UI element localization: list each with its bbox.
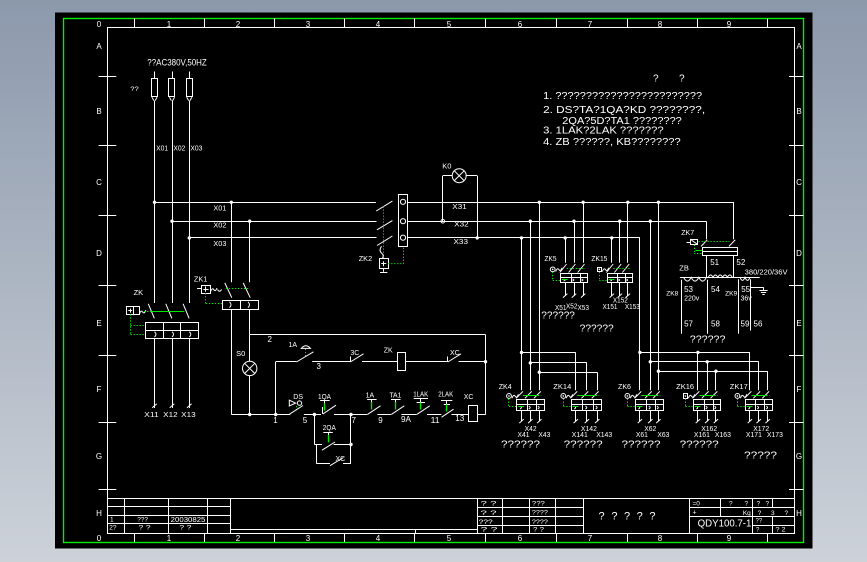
breaker ZK blade link dashed	[144, 311, 186, 313]
node bus taps at phases	[153, 201, 156, 204]
transformer ZB secondary winding 220V	[684, 277, 707, 281]
switch ZK2 link dashed	[383, 207, 385, 259]
breaker ZK15 output wires	[611, 282, 613, 296]
svg-text:X161: X161	[694, 432, 710, 439]
switch ZK2 body	[399, 195, 408, 247]
svg-text:D: D	[96, 249, 102, 258]
breaker ZK6 output wires	[639, 410, 641, 421]
svg-text:C: C	[796, 178, 802, 187]
breaker ZK17 blades	[745, 391, 752, 398]
svg-text:S0: S0	[236, 349, 245, 358]
wire rail 1 segments	[232, 414, 290, 416]
revision table grid	[108, 506, 231, 508]
wire ZK1 pole2 down to rail 2	[249, 309, 251, 334]
svg-text:?: ?	[599, 510, 605, 522]
svg-text:0: 0	[97, 534, 102, 543]
svg-text:X03: X03	[190, 144, 202, 153]
svg-text:?: ?	[611, 510, 617, 522]
svg-text:ZK1: ZK1	[194, 274, 208, 283]
breaker ZK1 thermal box	[223, 301, 259, 310]
wire lamp right leg	[466, 175, 477, 177]
breaker ZK4 output wires	[521, 410, 523, 421]
svg-text:9: 9	[727, 20, 732, 29]
svg-text:52: 52	[736, 258, 745, 267]
switch ZK2 operator	[380, 259, 389, 269]
svg-text:6: 6	[518, 534, 523, 543]
svg-text:2: 2	[236, 20, 241, 29]
svg-text:?: ?	[637, 510, 643, 522]
green sheet trim border	[64, 19, 804, 543]
svg-text:ZK9: ZK9	[725, 290, 737, 297]
breaker ZK1 operator	[197, 288, 201, 290]
wire ZK4 feeds from buses	[521, 238, 523, 390]
svg-text:????: ????	[532, 510, 548, 517]
transformer ZB primary winding	[708, 275, 732, 277]
svg-text:7: 7	[588, 534, 593, 543]
svg-text:X173: X173	[767, 432, 783, 439]
breaker ZK7 blade link dashed	[699, 241, 730, 243]
pushbutton 2QA branch	[314, 444, 322, 446]
svg-text:C: C	[96, 178, 102, 187]
svg-text:????: ????	[532, 519, 548, 526]
svg-text:? ?: ? ?	[481, 510, 498, 517]
wire secondary terminal 53-57	[681, 280, 683, 334]
svg-text:56: 56	[754, 320, 763, 329]
svg-text:X02: X02	[213, 221, 226, 230]
white drawing frame	[108, 28, 795, 534]
svg-text:11: 11	[431, 416, 441, 425]
wire ZK7 feed from X32	[706, 221, 708, 239]
svg-text:ZK16: ZK16	[676, 382, 694, 391]
svg-text:3C: 3C	[350, 350, 359, 357]
fuse RD2	[172, 72, 174, 80]
switch ZK2 blades	[376, 201, 392, 211]
svg-text:7: 7	[352, 416, 357, 425]
breaker ZK16 operator link dashed	[685, 399, 687, 407]
svg-text:?: ?	[679, 74, 685, 85]
svg-text:ZK17: ZK17	[730, 382, 748, 391]
svg-text:380/220/36V: 380/220/36V	[745, 267, 788, 276]
svg-text:QDY100.7-1: QDY100.7-1	[698, 519, 752, 530]
svg-text:3: 3	[306, 534, 311, 543]
svg-text:G: G	[96, 452, 102, 461]
breaker ZK15 blades	[606, 264, 613, 273]
svg-text:E: E	[796, 319, 801, 328]
svg-text:X153: X153	[625, 304, 640, 311]
svg-text:???: ???	[479, 519, 493, 526]
breaker ZK4 operator	[507, 394, 512, 399]
svg-text:7: 7	[588, 20, 593, 29]
svg-text:ZK5: ZK5	[545, 254, 557, 263]
svg-text:X53: X53	[578, 305, 590, 312]
svg-text:2?: 2?	[109, 525, 117, 532]
svg-text:X141: X141	[572, 432, 588, 439]
svg-text:??????: ??????	[541, 311, 575, 322]
svg-text:X02: X02	[173, 144, 185, 153]
svg-text:??????: ??????	[501, 439, 541, 450]
breaker ZK6 operator link dashed	[627, 399, 629, 407]
breaker ZK17 operator	[735, 394, 740, 399]
svg-text:X13: X13	[181, 410, 196, 419]
wire ZK1 pole1 down to rail 1	[231, 309, 233, 414]
breaker ZK5 blades	[560, 264, 567, 273]
wire phase L2	[172, 101, 174, 303]
breaker ZK14 blades	[570, 391, 577, 398]
wire secondary terminal 54-58	[707, 280, 709, 334]
breaker ZK thermal box	[146, 323, 199, 339]
breaker ZK6 thermal box	[636, 400, 664, 411]
svg-text:H: H	[796, 509, 802, 518]
breaker ZK17 output wires	[749, 410, 751, 421]
svg-text:F: F	[97, 385, 102, 394]
wire phase L3	[189, 101, 191, 303]
breaker ZK7 body	[703, 248, 738, 256]
svg-text:??????: ??????	[622, 439, 662, 450]
wire parallel branch right	[350, 415, 352, 464]
svg-text:ZK15: ZK15	[591, 254, 607, 263]
fuse RD1	[154, 72, 156, 80]
svg-text:X31: X31	[452, 202, 467, 211]
svg-text:X03: X03	[213, 239, 226, 248]
svg-text:B: B	[796, 107, 801, 116]
breaker ZK5 output wires	[565, 282, 567, 296]
svg-text:X163: X163	[715, 432, 731, 439]
svg-text:20030825: 20030825	[171, 517, 206, 524]
wire ZK5 feeds	[565, 238, 567, 263]
svg-text:220v: 220v	[684, 296, 700, 303]
svg-text:? 2: ? 2	[776, 528, 787, 534]
wire motor feed X13	[189, 339, 191, 408]
svg-text:X63: X63	[657, 432, 669, 439]
svg-text:?????: ?????	[744, 451, 778, 462]
svg-text:4: 4	[376, 534, 381, 543]
svg-text:X43: X43	[538, 432, 550, 439]
wire bus X03 left	[189, 237, 376, 239]
bottom ruler zone ticks	[134, 534, 136, 542]
svg-text:X12: X12	[163, 410, 178, 419]
svg-text:X61: X61	[636, 432, 648, 439]
svg-text:? ?: ? ?	[139, 524, 151, 531]
wire ZK15 feeds	[611, 238, 613, 263]
svg-text:8: 8	[658, 20, 663, 29]
svg-text:G: G	[796, 452, 802, 461]
svg-text:??: ??	[756, 519, 763, 525]
breaker ZK operator link dashed	[130, 314, 132, 335]
wire ZK7 to transformer	[706, 256, 708, 278]
svg-text:?: ?	[766, 501, 770, 508]
svg-text:K0: K0	[442, 162, 451, 171]
svg-text:X01: X01	[213, 204, 226, 213]
svg-text:X32: X32	[454, 220, 469, 229]
breaker ZK6 blade link dashed	[641, 395, 657, 397]
breaker ZK15 thermal box	[608, 274, 633, 283]
svg-text:2: 2	[236, 534, 241, 543]
wire bus X31	[408, 202, 734, 204]
fuse RD3	[189, 72, 191, 80]
svg-text:54: 54	[711, 285, 720, 294]
wire ZK1 feed from X02	[249, 221, 251, 282]
svg-text:1A: 1A	[366, 393, 375, 400]
wire secondary terminal 59	[738, 279, 740, 334]
wire ZK7 feed from X31	[733, 202, 735, 239]
breaker ZK4 blades	[516, 391, 523, 398]
breaker ZK14 operator	[561, 394, 566, 399]
svg-text:ZK: ZK	[384, 348, 393, 355]
switch ZK2 operator link dashed	[388, 248, 403, 264]
svg-text:3: 3	[306, 20, 311, 29]
svg-text:B: B	[96, 107, 101, 116]
wire bus X02 left	[172, 221, 377, 223]
breaker ZK16 operator	[684, 394, 688, 399]
breaker ZK16 blade link dashed	[699, 395, 714, 397]
wire branch to ZK14 pole3	[539, 372, 597, 374]
svg-text:X143: X143	[596, 432, 612, 439]
drawing title cell	[689, 499, 691, 534]
breaker ZK4 thermal box	[517, 400, 545, 411]
breaker ZK4 operator link dashed	[508, 399, 510, 407]
svg-text:13: 13	[455, 414, 465, 423]
svg-text:1: 1	[273, 416, 278, 425]
breaker ZK16 blades	[693, 391, 700, 398]
breaker ZK5 operator link dashed	[552, 272, 554, 280]
wire secondary terminal 56	[750, 279, 752, 330]
wire rail 3 segments	[276, 361, 297, 363]
svg-text:X171: X171	[746, 432, 762, 439]
wire ZK1 feed from X01	[231, 202, 233, 282]
svg-text:X41: X41	[518, 432, 530, 439]
svg-text:ZK2: ZK2	[359, 254, 373, 263]
svg-text:9: 9	[727, 534, 732, 543]
svg-text:1QA: 1QA	[318, 394, 331, 401]
svg-text:D: D	[796, 249, 802, 258]
svg-text:ZB: ZB	[679, 264, 689, 273]
transformer ZB secondary winding 36V	[740, 277, 750, 280]
svg-text:H: H	[96, 509, 102, 518]
svg-text:58: 58	[711, 320, 720, 329]
svg-text:??????: ??????	[690, 335, 726, 346]
svg-text:+: +	[693, 510, 697, 517]
wire motor feed X12	[172, 339, 174, 408]
breaker ZK5 thermal box	[561, 274, 588, 283]
svg-text:1: 1	[167, 20, 172, 29]
svg-text:55: 55	[741, 285, 750, 294]
wire branch to ZK14 pole1	[522, 352, 576, 354]
breaker ZK14 operator link dashed	[563, 399, 565, 407]
svg-text:1. ????????????????????????: 1. ????????????????????????	[543, 91, 702, 102]
svg-text:5: 5	[303, 416, 308, 425]
svg-text:0: 0	[97, 20, 102, 29]
svg-text:X11: X11	[144, 410, 159, 419]
svg-text:9: 9	[378, 416, 383, 425]
svg-text:A: A	[96, 42, 102, 51]
svg-text:2LAK: 2LAK	[438, 392, 453, 399]
svg-text:???: ???	[532, 500, 545, 507]
breaker ZK1 operator link dashed	[205, 293, 207, 304]
svg-text:4: 4	[376, 20, 381, 29]
svg-text:F: F	[797, 385, 802, 394]
svg-text:ZK4: ZK4	[499, 382, 512, 391]
breaker ZK15 operator	[598, 268, 602, 272]
breaker ZK1 blades	[225, 283, 232, 298]
wire branch to ZK16 ZK17 pole2	[650, 361, 758, 363]
title block top border	[108, 498, 796, 500]
wire motor feed X11	[154, 339, 156, 408]
breaker ZK15 blade link dashed	[613, 268, 630, 270]
right ruler row ticks	[789, 76, 803, 78]
breaker ZK5 operator	[550, 267, 555, 272]
svg-text:1: 1	[167, 534, 172, 543]
wire branch to ZK16 ZK17 pole1	[640, 352, 750, 354]
breaker ZK6 blades	[635, 391, 642, 398]
breaker ZK17 blade link dashed	[751, 395, 766, 397]
wire branch to ZK16 ZK17 pole3	[658, 371, 767, 373]
svg-text:?: ?	[745, 501, 749, 508]
svg-text:?: ?	[757, 501, 761, 508]
svg-text:2QA: 2QA	[323, 425, 336, 432]
breaker ZK15 operator link dashed	[599, 272, 601, 280]
svg-text:??: ??	[130, 86, 139, 93]
wire ZK1 pole1 corner	[230, 414, 233, 416]
svg-text:???: ???	[137, 516, 148, 523]
svg-text:57: 57	[684, 320, 693, 329]
wire parallel branch left	[314, 415, 316, 445]
svg-text:ZK7: ZK7	[681, 228, 694, 237]
contact XC holding branch	[316, 445, 318, 464]
svg-text:? ?: ? ?	[179, 524, 191, 531]
wire rail2 right drop	[485, 335, 487, 415]
svg-text:XC: XC	[336, 456, 346, 463]
svg-text:6: 6	[518, 20, 523, 29]
svg-text:X151: X151	[603, 304, 618, 311]
svg-text:5: 5	[447, 20, 452, 29]
svg-text:X52: X52	[566, 304, 578, 311]
wire rail3 to rail1 drop	[275, 362, 277, 415]
svg-text:? ?: ? ?	[533, 526, 544, 533]
wire ZK6 feeds from buses	[639, 238, 641, 390]
svg-text:2: 2	[268, 335, 273, 344]
svg-text:?: ?	[785, 510, 789, 517]
breaker ZK16 thermal box	[694, 400, 721, 411]
breaker ZK4 blade link dashed	[523, 395, 538, 397]
svg-text:??????: ??????	[680, 439, 720, 450]
svg-text:1: 1	[110, 516, 114, 523]
svg-text:?: ?	[624, 510, 630, 522]
svg-text:??AC380V,50HZ: ??AC380V,50HZ	[147, 58, 207, 68]
wire phase L1	[154, 101, 156, 303]
svg-text:4. ZB ??????, KB????????: 4. ZB ??????, KB????????	[543, 137, 681, 148]
svg-text:?: ?	[649, 510, 655, 522]
breaker ZK14 output wires	[575, 410, 577, 421]
svg-text:?: ?	[653, 74, 659, 85]
wire lamp left leg	[443, 175, 452, 177]
right info grid	[689, 507, 795, 509]
wire rail 2	[250, 334, 486, 336]
svg-text:1A: 1A	[289, 342, 298, 349]
svg-text:TA1: TA1	[389, 393, 401, 400]
breaker ZK14 blade link dashed	[577, 395, 595, 397]
breaker ZK5 blade link dashed	[567, 268, 585, 270]
svg-text:3: 3	[771, 510, 775, 517]
breaker ZK7 operator	[691, 240, 698, 245]
svg-text:ZK14: ZK14	[553, 382, 571, 391]
svg-text:5: 5	[447, 534, 452, 543]
svg-text:59: 59	[741, 320, 750, 329]
transformer ZB core line	[680, 277, 760, 279]
wire bus X33	[408, 237, 640, 239]
svg-text:? ?: ? ?	[481, 526, 499, 533]
svg-text:36v: 36v	[741, 296, 753, 303]
breaker ZK14 thermal box	[572, 400, 602, 411]
svg-text:3: 3	[317, 362, 322, 371]
wire bus X01 left	[155, 202, 376, 204]
svg-text:X33: X33	[454, 237, 469, 246]
svg-text:Kg: Kg	[743, 510, 751, 517]
breaker ZK blades	[148, 304, 154, 319]
left ruler row ticks	[99, 76, 117, 78]
svg-text:1LAK: 1LAK	[413, 392, 428, 399]
svg-text:E: E	[96, 319, 101, 328]
svg-text:ZK6: ZK6	[618, 382, 631, 391]
breaker ZK7 blades	[701, 240, 707, 247]
svg-text:9A: 9A	[401, 415, 412, 424]
svg-text:A: A	[796, 42, 802, 51]
breaker ZK6 operator	[625, 394, 630, 399]
svg-text:3. 1LAK?2LAK ???????: 3. 1LAK?2LAK ???????	[543, 126, 664, 137]
svg-text:8: 8	[658, 534, 663, 543]
wire branch to ZK14 pole2	[530, 362, 587, 364]
svg-text:=0: =0	[693, 501, 701, 508]
svg-text:?: ?	[729, 501, 733, 508]
svg-text:53: 53	[684, 285, 693, 294]
breaker ZK16 output wires	[697, 410, 699, 421]
breaker ZK1 blade link dashed	[226, 288, 249, 290]
svg-text:?: ?	[758, 510, 762, 517]
ground symbol	[750, 287, 763, 289]
svg-text:XC: XC	[464, 394, 474, 401]
svg-text:ZK: ZK	[134, 288, 144, 297]
svg-text:? ?: ? ?	[481, 501, 498, 508]
wire bus X32	[408, 221, 706, 223]
top ruler zone ticks	[134, 18, 136, 27]
breaker ZK17 operator link dashed	[737, 399, 739, 407]
svg-text:??????: ??????	[564, 439, 604, 450]
svg-text:DS: DS	[293, 394, 303, 401]
svg-text:XC: XC	[450, 350, 460, 357]
svg-text:51: 51	[710, 258, 719, 267]
signature table grid	[477, 499, 479, 534]
svg-text:ZK8: ZK8	[666, 290, 678, 297]
breaker ZK17 thermal box	[746, 400, 773, 411]
svg-text:2. DS?TA?1QA?KD ????????,: 2. DS?TA?1QA?KD ????????,	[543, 105, 705, 116]
svg-text:??????: ??????	[580, 324, 614, 335]
svg-text:X01: X01	[156, 144, 168, 153]
breaker ZK7 operator link dashed	[694, 245, 696, 254]
breaker ZK operator	[127, 307, 140, 315]
blank middle cell with bottom strip	[230, 529, 477, 531]
